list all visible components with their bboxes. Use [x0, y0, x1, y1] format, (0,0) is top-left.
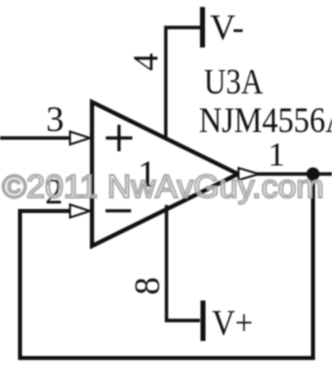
svg-text:8: 8: [127, 277, 167, 295]
svg-text:©2011 NwAvGuy.com: ©2011 NwAvGuy.com: [2, 168, 324, 204]
svg-text:V+: V+: [212, 303, 253, 343]
svg-text:V-: V-: [210, 7, 244, 47]
svg-text:U3A: U3A: [204, 62, 263, 102]
svg-text:NJM4556A: NJM4556A: [199, 100, 332, 140]
svg-text:4: 4: [126, 53, 166, 71]
svg-text:3: 3: [46, 99, 64, 139]
